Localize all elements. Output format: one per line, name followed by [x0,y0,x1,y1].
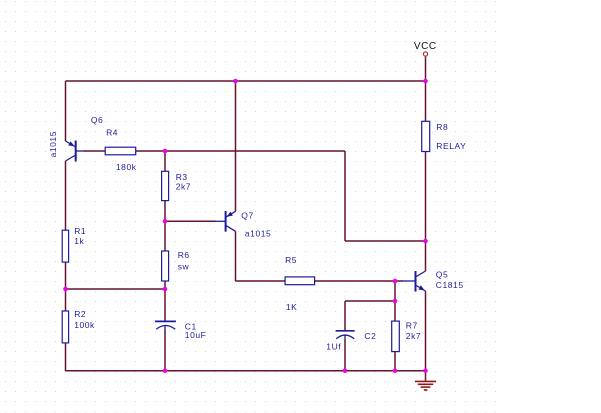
svg-text:R3: R3 [176,172,188,182]
wire R5 to Q5 base [315,280,403,282]
svg-text:2k7: 2k7 [406,331,421,341]
svg-text:1K: 1K [286,302,298,312]
svg-text:R8: R8 [436,122,448,132]
svg-text:R7: R7 [406,321,418,331]
svg-text:sw: sw [178,262,190,272]
power port VCC [423,52,427,56]
wire R7 to bottom rail [394,352,396,371]
wire node to R6 [164,221,166,251]
wire node to R3 [164,151,166,171]
capacitor C2 [336,331,355,341]
svg-text:R2: R2 [74,309,86,319]
wire C2 branch horizontal y301 [345,300,395,302]
wire R2 to bottom rail [65,343,67,371]
wire Q7 emitter rail x235 [235,81,237,211]
resistor R4 [105,147,136,155]
wire R6 to node [164,281,166,289]
junction R4/R3 node [163,149,168,154]
junction C2 branch node [393,299,398,304]
ground [415,371,436,390]
wire C2 top [344,301,346,330]
junction bottom C1 [163,368,168,373]
wire R3 to Q7 base node [164,201,166,222]
capacitor C1 [155,321,176,331]
junction top Q7 rail [233,79,238,84]
wire relay node to Q5 collector [425,241,427,271]
wire Q7 base [165,220,216,222]
svg-text:100k: 100k [74,320,95,330]
transistor Q7 [216,211,236,232]
svg-text:R6: R6 [178,250,190,260]
wire Q7 collector down [235,231,237,281]
svg-text:Q6: Q6 [91,115,103,125]
junction R3/Q7 base node [163,219,168,224]
wire top rail [66,80,426,82]
junction bottom ground [423,368,428,373]
wire Q5 emitter to ground [425,291,427,371]
wire vertical right branch x345 [344,151,346,241]
transistor Q6 [66,141,85,162]
resistor R7 [392,321,400,352]
wire R4 to node [136,150,345,152]
svg-text:C2: C2 [364,331,376,341]
wire Q6 base to R4 [84,150,105,152]
junction relay node [423,239,428,244]
junction bottom C2 [343,368,348,373]
resistor R2 [62,311,68,343]
svg-text:180k: 180k [116,162,137,172]
svg-text:R1: R1 [74,226,86,236]
resistor R1 [62,230,68,262]
junction bottom R7 [393,368,398,373]
svg-text:VCC: VCC [414,41,437,52]
wire C1 to bottom rail [164,331,166,372]
svg-text:R5: R5 [285,255,297,265]
wire C2 to bottom rail [344,340,346,371]
junction top VCC rail [423,79,428,84]
wire Q5 base node down [394,281,396,321]
junction R1/R2 node [63,287,68,292]
wire R8 to relay node [425,152,427,242]
svg-text:1Uf: 1Uf [326,341,341,351]
transistor Q5 [403,271,426,292]
wire R1-R2 node to R6-C1 node [66,288,166,290]
svg-text:Q5: Q5 [436,270,448,280]
wire node to C1 [164,289,166,321]
svg-text:RELAY: RELAY [436,141,466,151]
wire Q7 collector to R5 [236,280,286,282]
resistor R5 [285,277,315,285]
junction Q5 base node [393,279,398,284]
svg-text:a1015: a1015 [48,131,58,157]
svg-text:C1815: C1815 [436,280,464,290]
wire Q6 collector to R1 [65,161,67,230]
resistor R6 [162,251,169,281]
wire R1 to R2 [65,262,67,311]
wire VCC to R8 [425,57,427,122]
wire relay horizontal y241 [345,240,426,242]
resistor R8 [422,121,430,151]
junction R6/C1 node [163,287,168,292]
svg-text:a1015: a1015 [245,228,271,238]
wire bottom rail [66,370,426,372]
resistor R3 [162,171,169,200]
svg-text:1k: 1k [74,236,84,246]
svg-text:2k7: 2k7 [176,181,191,191]
svg-text:R4: R4 [106,128,118,138]
svg-text:10uF: 10uF [185,330,207,340]
wire left rail upper [65,81,67,141]
svg-text:Q7: Q7 [241,210,253,220]
